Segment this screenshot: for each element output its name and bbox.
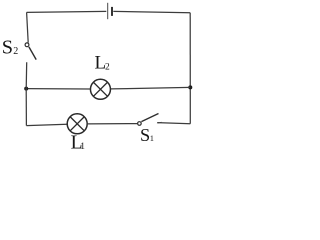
wire middle right (junction to lamp L2) bbox=[111, 87, 190, 89]
node right junction bbox=[188, 85, 192, 89]
svg-text:S: S bbox=[140, 125, 150, 145]
lamp L2 bbox=[90, 79, 110, 99]
battery cell long plate bbox=[107, 3, 109, 19]
wire bottom middle (lamp L1 to switch S1) bbox=[88, 123, 137, 125]
label S1 bbox=[140, 125, 154, 145]
svg-text:2: 2 bbox=[105, 62, 110, 72]
wire bottom left (corner to lamp L1) bbox=[26, 124, 67, 125]
wire left vertical lower (junction down to corner) bbox=[25, 89, 27, 126]
switch S2 pivot bbox=[25, 43, 29, 47]
wire bottom right (switch S1 to corner) bbox=[157, 122, 191, 124]
switch S2 blade bbox=[29, 47, 36, 60]
wire left vertical mid (switch S2 bottom to junction) bbox=[25, 62, 28, 88]
svg-text:S: S bbox=[2, 37, 13, 59]
svg-text:2: 2 bbox=[13, 46, 18, 57]
wire top right (battery to corner) bbox=[113, 11, 190, 12]
label L2 bbox=[95, 53, 111, 74]
switch S1 blade bbox=[141, 114, 158, 122]
switch S1 pivot bbox=[138, 122, 142, 126]
label S2 bbox=[2, 37, 19, 59]
lamp L1 bbox=[67, 114, 87, 134]
battery cell short plate bbox=[111, 7, 113, 16]
wire top left (corner to battery) bbox=[27, 11, 107, 12]
svg-text:1: 1 bbox=[150, 133, 154, 143]
wire left vertical upper (corner down to switch S2) bbox=[27, 12, 29, 42]
node left junction bbox=[24, 87, 28, 91]
label L1 bbox=[71, 133, 86, 154]
wire middle left (lamp L2 to junction) bbox=[26, 88, 90, 90]
wire right vertical bbox=[189, 13, 191, 124]
svg-text:1: 1 bbox=[80, 142, 85, 152]
